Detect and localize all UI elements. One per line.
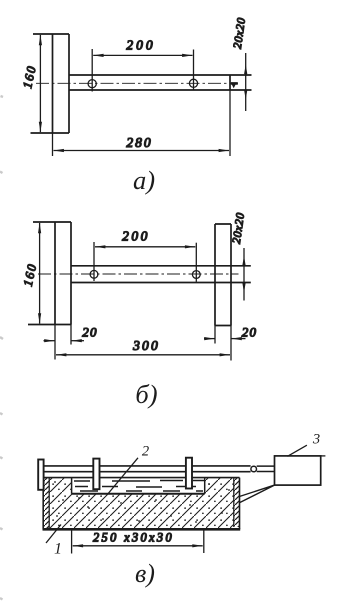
figure b: web bar: [71, 266, 251, 283]
figure b: dimension 200 line: [95, 246, 195, 248]
figure v: cavity bottom line: [72, 493, 205, 495]
figure a: dimension 280 line: [54, 150, 230, 152]
figure a: left extension line for 280: [52, 133, 54, 156]
figure b: right flange bar: [215, 224, 231, 326]
svg-text:а): а): [133, 165, 155, 195]
figure a: circle mark right: [189, 79, 197, 87]
figure v: wires to trough: [239, 485, 274, 503]
figure v: power source box 3: [275, 456, 321, 485]
figure v: connector circle: [251, 466, 257, 472]
svg-text:1: 1: [54, 541, 62, 558]
figure a: centerline dash-dot: [36, 82, 238, 84]
figure b: circle mark left: [90, 270, 98, 278]
figure v: dimension 250 line: [73, 545, 203, 547]
figure b: bottom-left 20 dim arrows: [44, 340, 55, 342]
figure v: trough bottom line: [43, 528, 241, 531]
figure b: centerline dash-dot: [38, 273, 239, 275]
figure b: bottom-left 20 dim extensions: [55, 325, 71, 360]
figure v: right pin: [186, 458, 192, 489]
figure v: sand fill hatch U-shape: [49, 478, 234, 528]
figure a: weld mark blob: [231, 82, 238, 88]
figure v: cavity left edge: [71, 478, 73, 494]
figure a: right extension through circle: [193, 50, 195, 90]
figure b: left flange bar: [28, 222, 71, 325]
svg-text:250 x30x30: 250 x30x30: [93, 531, 174, 545]
figure v: leader line 3: [288, 445, 307, 456]
figure v: middle pin: [93, 459, 99, 490]
figure a: horizontal web bar: [69, 75, 252, 90]
svg-text:280: 280: [126, 135, 152, 150]
scan smudges at left edge: [0, 96, 3, 600]
figure b: dimension 160 line: [39, 223, 41, 324]
figure a: vertical flange bar: [31, 34, 70, 133]
figure a: 20x20 dimension arrows: [245, 53, 247, 111]
svg-text:200: 200: [126, 38, 155, 53]
figure a: web extension line down-right: [229, 90, 231, 156]
figure b: circle mark right: [192, 271, 200, 279]
svg-text:2: 2: [142, 444, 149, 460]
figure v: trough outer right edge: [239, 478, 241, 530]
figure b: left extension through circle: [93, 242, 95, 281]
figure v: left wall inner boundary: [48, 478, 50, 528]
figure v: left thin form wall hatch: [43, 478, 49, 528]
figure b: bottom-right 20 dim arrows: [204, 338, 215, 340]
figure v: left stop pin: [38, 460, 43, 490]
figure v: right wall inner boundary: [233, 478, 235, 527]
figure v: rod to box: [257, 466, 275, 471]
figure v: leader line 2: [108, 458, 138, 494]
figure v: dim 250 extension lines: [72, 530, 204, 554]
figure b: bottom-right 20 dim extensions: [215, 326, 231, 361]
figure b: right extension through circle: [195, 243, 197, 282]
svg-text:200: 200: [122, 229, 150, 244]
figure v: box top extension: [321, 455, 326, 457]
figure v: trough outer left edge: [42, 478, 44, 530]
figure a: dimension 160 line: [39, 35, 41, 132]
figure b: dimension 300 line: [56, 354, 230, 356]
figure v: liquid dashes: [74, 481, 204, 492]
figure a: dimension 200 line: [93, 54, 192, 56]
figure a: circle mark left: [88, 80, 96, 88]
svg-text:300: 300: [132, 338, 160, 353]
figure v: cavity right edge: [204, 478, 206, 494]
figure v: trough top line: [43, 477, 239, 479]
svg-text:в): в): [135, 559, 155, 588]
svg-text:3: 3: [312, 432, 320, 448]
figure b: 20x20 dimension arrows: [243, 248, 245, 301]
figure v: leader line 1: [46, 525, 61, 544]
svg-text:20: 20: [82, 325, 98, 340]
figure v: extra fill dots: [54, 481, 230, 523]
figure a: left extension through circle: [91, 49, 93, 92]
figure v: right thin form wall hatch: [234, 478, 240, 527]
svg-text:б): б): [135, 379, 157, 409]
figure v: beam band: [43, 466, 251, 472]
svg-text:20: 20: [242, 325, 258, 340]
